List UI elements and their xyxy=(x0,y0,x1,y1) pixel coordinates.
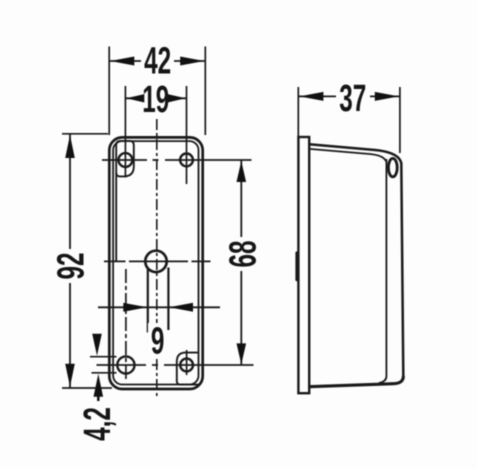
center circle horizontal centerline xyxy=(104,260,211,262)
dim 9: right arrow xyxy=(169,303,193,312)
dim 4,2: top tangent extension line xyxy=(90,356,117,358)
bottom-right hole vertical centerline xyxy=(186,350,188,375)
dim 92: bottom arrow xyxy=(65,364,75,387)
dim 19: left arrow xyxy=(126,94,144,102)
dim 37: left arrow xyxy=(299,92,323,101)
contour around bottom-right hole xyxy=(177,353,199,385)
keyhole contour around top-left hole xyxy=(116,141,134,262)
dim 42: extension lines xyxy=(109,47,205,136)
dim 37: right extension line xyxy=(399,87,401,153)
top-left hole H1 xyxy=(119,153,133,167)
dim 42: value xyxy=(144,39,171,82)
slot right edge xyxy=(167,268,169,331)
svg-text:9: 9 xyxy=(151,319,165,362)
side view: body outline xyxy=(309,144,403,376)
svg-text:42: 42 xyxy=(144,39,171,82)
dim 42: text mask xyxy=(141,46,174,76)
bottom-right hole H4 xyxy=(180,359,193,372)
bottom-left hole H3 xyxy=(117,356,134,373)
dim 4,2: value xyxy=(76,407,119,441)
side view: inner top wall line xyxy=(309,149,386,162)
dim 68: text mask xyxy=(226,237,257,271)
dim 4,2: lower arrow stem xyxy=(97,392,100,401)
dim 42: dimension line xyxy=(109,60,205,62)
svg-text:68: 68 xyxy=(221,240,264,267)
dim 37: text mask xyxy=(336,82,370,112)
dim 9: text mask xyxy=(148,323,167,356)
side view: edge hole ellipse xyxy=(388,158,397,176)
dim 92: text mask xyxy=(55,249,85,283)
dim 19: value xyxy=(142,78,169,121)
dim 19: dimension line xyxy=(125,97,186,99)
dim 42: right arrow xyxy=(180,57,204,66)
dim 4,2: lower arrow pointing up xyxy=(94,374,104,397)
dim 68: value xyxy=(221,240,264,267)
dim 19: text mask xyxy=(140,84,172,114)
center circle hole xyxy=(145,251,166,272)
dim 92: value xyxy=(49,252,92,279)
front view: inner body line xyxy=(113,141,198,384)
svg-text:37: 37 xyxy=(339,76,366,119)
svg-text:4,2: 4,2 xyxy=(76,407,119,441)
dim 92: top arrow xyxy=(65,135,75,158)
top holes chain centerline xyxy=(102,159,252,161)
dim 19: right arrow xyxy=(168,94,186,102)
top-left hole vertical centerline / 19 extension xyxy=(124,86,126,178)
dim 9: dimension line xyxy=(98,306,220,308)
dim 42: left arrow xyxy=(110,57,134,66)
dim 68: bottom arrow xyxy=(237,343,247,364)
slot left edge xyxy=(147,268,149,333)
svg-text:92: 92 xyxy=(49,252,92,279)
dim 4,2: upper arrow pointing down xyxy=(92,334,102,356)
dim 9: left arrow xyxy=(123,303,147,312)
dim 68: dimension line xyxy=(240,160,242,365)
dim 37: dimension line xyxy=(298,95,400,97)
bottom holes chain centerline xyxy=(97,364,254,366)
bottom-left hole vertical centerline xyxy=(125,269,127,381)
front view: outer body outline xyxy=(109,137,202,389)
dim 92: dimension line xyxy=(69,134,71,388)
dim 37: left extension line xyxy=(297,87,299,137)
side view: gasket bump on flange face xyxy=(295,251,298,281)
dim 37: right arrow xyxy=(375,92,399,101)
dim 9: value xyxy=(151,319,165,362)
side view: body bottom edge xyxy=(309,376,403,387)
vertical chain centerline xyxy=(156,119,158,397)
side view: flange plate xyxy=(298,137,309,393)
dim 4,2: bottom tangent extension line xyxy=(92,372,117,374)
dim 92: bottom extension line xyxy=(62,387,112,389)
top-right hole vertical centerline / 19 extension xyxy=(186,86,188,184)
svg-text:19: 19 xyxy=(142,78,169,121)
dim 68: top arrow xyxy=(237,161,247,182)
top-right hole H2 xyxy=(180,154,193,167)
side view: lens edge line xyxy=(379,159,386,383)
dim 92: top extension line xyxy=(62,133,108,135)
dim 37: value xyxy=(339,76,366,119)
